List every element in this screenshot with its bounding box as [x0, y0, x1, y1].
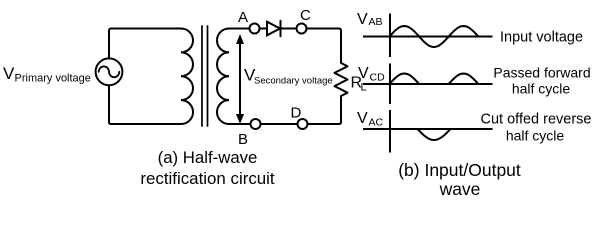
- V secondary measurement arrow: [236, 34, 244, 124]
- diode D1 triangle: [267, 22, 280, 36]
- wire node C to top-right corner: [307, 29, 342, 64]
- waveform 3 horizontal axis: [363, 128, 493, 130]
- svg-text:B: B: [238, 131, 248, 148]
- svg-text:AC: AC: [369, 117, 384, 129]
- wire top-left (source to transformer primary): [109, 29, 181, 59]
- svg-text:Passed forward: Passed forward: [493, 65, 590, 81]
- transformer T1 primary winding: [181, 29, 193, 125]
- transformer core line 2: [207, 26, 209, 126]
- svg-text:Primary voltage: Primary voltage: [15, 73, 91, 85]
- svg-text:V: V: [357, 110, 368, 127]
- svg-text:AB: AB: [369, 16, 383, 28]
- wire node B to secondary bottom: [229, 123, 251, 125]
- svg-text:D: D: [291, 105, 302, 122]
- wire bottom-left (source to transformer primary): [109, 85, 181, 124]
- waveform 2 rectified curve VCD: [390, 74, 479, 85]
- waveform 1 vertical axis: [389, 14, 391, 58]
- transformer T1 secondary winding: [217, 29, 229, 125]
- svg-text:Cut offed reverse: Cut offed reverse: [481, 112, 592, 128]
- wire diode to node C: [281, 28, 297, 30]
- svg-text:Input voltage: Input voltage: [500, 30, 583, 46]
- svg-text:V: V: [3, 64, 15, 83]
- wire secondary top to node A: [229, 28, 250, 30]
- svg-text:V: V: [357, 11, 368, 28]
- svg-text:wave: wave: [439, 179, 481, 199]
- diode D1 cathode bar: [280, 21, 282, 37]
- svg-text:half cycle: half cycle: [512, 81, 571, 97]
- svg-text:CD: CD: [370, 72, 386, 84]
- svg-text:(a) Half-wave: (a) Half-wave: [158, 148, 258, 167]
- waveform 1 sine curve VAB: [390, 26, 479, 47]
- AC source V1: [96, 58, 123, 85]
- waveform 2 vertical axis: [389, 64, 391, 105]
- waveform 2 horizontal axis: [363, 83, 493, 85]
- node A terminal circle: [250, 24, 260, 34]
- node B terminal circle: [251, 119, 261, 129]
- wire node A to diode: [260, 28, 268, 30]
- node D terminal circle: [298, 119, 308, 129]
- resistor RL zigzag: [335, 63, 348, 96]
- wire node D to node B: [261, 123, 298, 125]
- waveform 3 cut-off curve VAC: [418, 129, 451, 140]
- svg-text:C: C: [300, 7, 311, 24]
- waveform 3 vertical axis: [389, 110, 391, 153]
- waveform 1 horizontal axis: [363, 36, 493, 38]
- svg-text:A: A: [238, 9, 248, 26]
- wire resistor bottom to bottom-right corner: [308, 96, 342, 124]
- transformer core line 1: [201, 26, 203, 126]
- node C terminal circle: [297, 24, 307, 34]
- svg-text:V: V: [358, 65, 369, 82]
- svg-text:Secondary voltage: Secondary voltage: [254, 76, 333, 87]
- svg-text:half cycle: half cycle: [506, 128, 565, 144]
- svg-text:rectification circuit: rectification circuit: [140, 169, 275, 188]
- svg-text:(b) Input/Output: (b) Input/Output: [398, 160, 521, 180]
